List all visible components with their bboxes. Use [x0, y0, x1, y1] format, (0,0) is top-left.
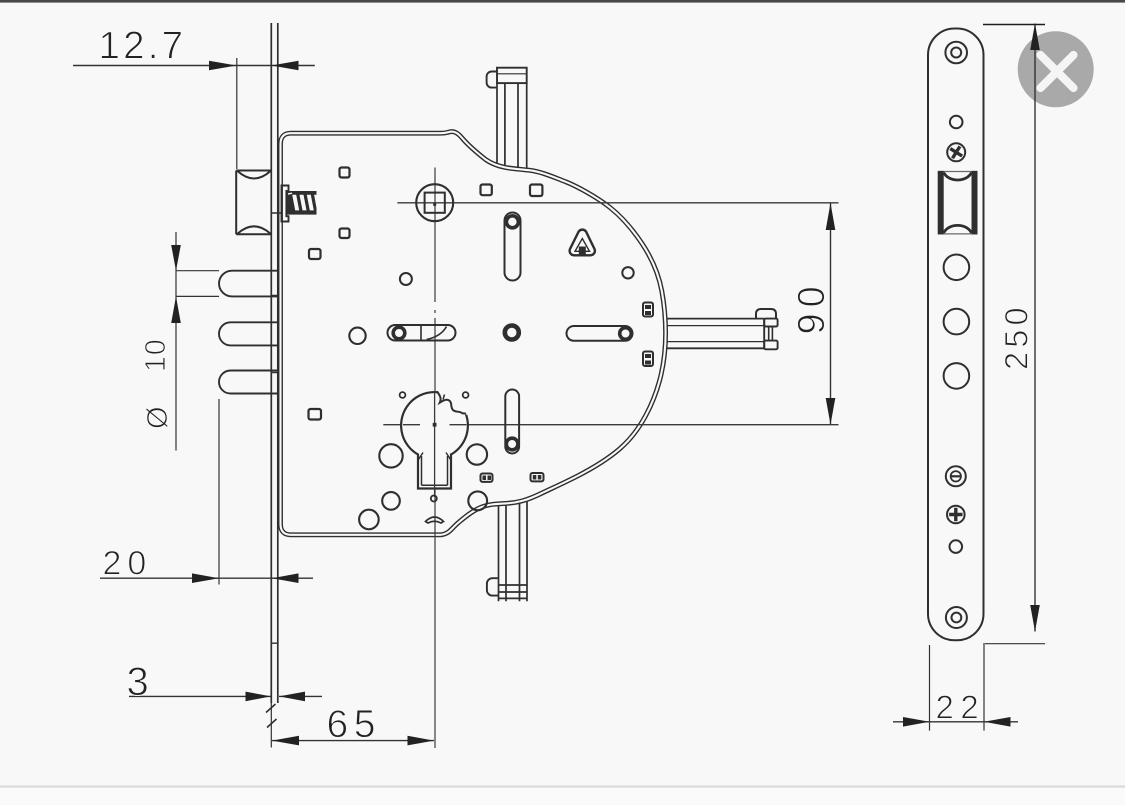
bolt hole 2 — [944, 309, 970, 335]
bolt stack hole right-lower — [643, 352, 653, 367]
cylinder cam bite accent — [443, 395, 445, 400]
faceplate side-view strip — [266, 23, 278, 748]
deadbolt pin 3 — [219, 371, 278, 394]
cylinder cam bite — [437, 391, 466, 413]
svg-text:90: 90 — [791, 280, 833, 334]
bottom separator line — [0, 786, 1125, 788]
dim 65 right arrow — [408, 736, 435, 746]
cylinder keyway inner walls — [422, 456, 448, 485]
dim 22 line middle — [930, 721, 985, 723]
cylinder keyway chamfers — [419, 453, 451, 460]
euro cylinder profile — [401, 392, 468, 488]
cylinder horizontal centerline — [383, 424, 838, 426]
svg-text:3: 3 — [127, 660, 149, 704]
close button X glyph — [1041, 55, 1074, 88]
faceplate left extension line — [929, 645, 931, 731]
dim 250 top arrow — [1030, 24, 1040, 51]
bolt pair hole bottom-left — [481, 474, 493, 482]
hole left of left slot — [349, 328, 365, 344]
dim 250 bottom arrow — [1030, 605, 1040, 632]
phillips screw lower — [947, 506, 965, 524]
cylinder center dot — [433, 423, 437, 427]
hole right of cylinder — [467, 444, 487, 464]
dim 3 left arrow — [246, 692, 272, 702]
slotted screw — [946, 466, 966, 486]
spindle square hole — [425, 193, 445, 213]
dim 65 left arrow — [272, 736, 299, 746]
deadbolt pin 2 — [219, 322, 278, 345]
upper guide slot — [505, 213, 521, 281]
upper slot pin ring — [506, 216, 518, 228]
faceplate top extension line — [983, 24, 1045, 26]
bolt hole 3 — [944, 363, 970, 389]
svg-text:250: 250 — [999, 303, 1035, 370]
dim 10 top arrow — [171, 245, 181, 271]
deadbolt pin 1 — [219, 271, 278, 297]
lower guide slot — [505, 390, 519, 454]
lower slot pin ring — [506, 438, 518, 450]
small hole upper right — [622, 267, 633, 278]
bolt stack hole right-upper — [643, 303, 653, 317]
dim 65 line — [272, 740, 434, 742]
right mounting post (horizontal stud) — [661, 309, 778, 349]
screw centerline tick — [271, 212, 281, 214]
close button circle — [1018, 31, 1094, 107]
dim 3 right arrow — [279, 692, 305, 702]
top mounting post (upper stud) — [487, 68, 527, 176]
hole lower-right of cylinder — [468, 491, 487, 510]
faceplate right extension line — [983, 643, 985, 731]
dim 22 line right — [984, 721, 1018, 723]
phillips screw upper — [947, 143, 966, 162]
dim 10 vertical line — [175, 232, 177, 451]
central hub hole — [505, 326, 519, 340]
dim 12.7 right arrow — [272, 61, 299, 71]
dim 250 vertical line — [1034, 24, 1036, 632]
pin extension line down — [218, 399, 220, 585]
spindle vertical centerline — [434, 168, 436, 749]
small hole upper — [950, 116, 963, 129]
square hole top-middle — [481, 185, 492, 196]
latch bolt (side view) — [236, 171, 271, 235]
dim 22 left arrow — [903, 717, 930, 727]
svg-text:Ø: Ø — [142, 406, 174, 429]
latch window frame — [938, 171, 978, 235]
lock case outline (double line) — [281, 132, 666, 535]
pin1 top extension — [176, 270, 219, 272]
svg-text:10: 10 — [140, 338, 172, 372]
spindle follower circle — [416, 184, 453, 221]
small hole above cylinder right — [463, 392, 469, 398]
bottom page strip — [0, 788, 1125, 805]
faceplate bottom extension line — [985, 643, 1045, 645]
small hole lower — [950, 540, 963, 553]
dim 22 right arrow — [984, 717, 1011, 727]
spindle horizontal centerline — [397, 202, 838, 204]
square hole left — [309, 249, 321, 259]
svg-text:65: 65 — [327, 703, 381, 746]
warning triangle symbol — [570, 230, 595, 256]
dim 10 bottom arrow — [171, 296, 181, 323]
hole left of cylinder — [379, 444, 402, 467]
lock case outline white core — [281, 132, 666, 535]
top fixing screw outer — [945, 42, 967, 64]
top border bar — [0, 0, 1125, 3]
dim 3 line right — [279, 695, 322, 697]
bolt hole 1 — [944, 254, 970, 280]
bottom mounting post (lower stud) — [487, 497, 527, 601]
bottom fixing screw outer — [946, 607, 967, 628]
square hole mid-left — [340, 229, 350, 239]
dim 12.7 left arrow — [209, 61, 237, 71]
small hole above-left of slot — [400, 273, 412, 285]
cylinder cam bite erase — [438, 391, 467, 414]
svg-text:12.7: 12.7 — [99, 24, 187, 67]
dim 20 left arrow — [192, 573, 219, 583]
square hole lower-left — [309, 409, 322, 420]
dim 12.7 line — [73, 65, 315, 67]
bottom fixing screw inner — [952, 613, 962, 623]
dim 22 line left — [893, 721, 930, 723]
latch extension line — [236, 58, 238, 169]
dim 90 bottom arrow — [826, 398, 836, 425]
hole bottom-left corner area — [359, 510, 379, 530]
threaded adjuster screw at left — [282, 186, 317, 222]
spindle center dot — [433, 203, 436, 206]
top fixing screw inner — [951, 48, 961, 58]
dim 20 right arrow — [272, 573, 299, 583]
small hole below cylinder — [431, 496, 437, 502]
dim 90 top arrow — [826, 203, 836, 230]
pin1 bottom extension — [176, 295, 219, 297]
faceplate outline — [928, 29, 984, 641]
left lever slot divider — [421, 326, 447, 341]
left slot pin ring — [393, 327, 405, 339]
square hole top-left — [340, 168, 350, 178]
cylinder centerline overlays — [403, 391, 467, 497]
dim 90 vertical line — [830, 203, 832, 425]
small hole above cylinder left — [400, 392, 406, 398]
bolt pair hole bottom-right — [531, 473, 544, 481]
hole lower-left of cylinder — [382, 492, 400, 510]
svg-text:20: 20 — [103, 545, 153, 583]
left lever slot — [388, 325, 456, 341]
dim 20 line — [100, 577, 313, 579]
smile notch below cylinder — [426, 517, 444, 523]
square hole top-right — [530, 185, 542, 197]
dim 3 line left — [129, 695, 271, 697]
svg-text:22: 22 — [936, 689, 986, 726]
right lever slot — [567, 326, 633, 341]
right slot pin ring — [620, 328, 632, 340]
